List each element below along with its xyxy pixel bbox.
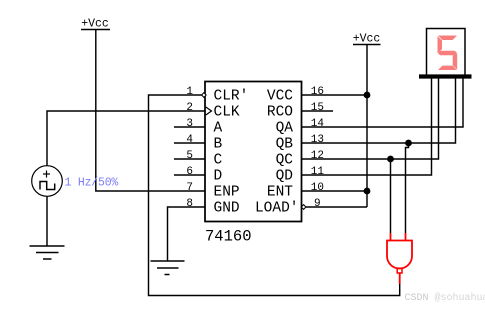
- node VCC junction: [364, 92, 371, 99]
- svg-text:9: 9: [314, 198, 321, 210]
- svg-text:14: 14: [311, 118, 325, 130]
- wire pin12 QC to display: [302, 78, 439, 159]
- svg-text:CLK: CLK: [214, 105, 240, 121]
- svg-text:16: 16: [311, 86, 324, 98]
- ground (clock): [30, 246, 65, 259]
- node QC junction: [387, 156, 394, 163]
- svg-text:11: 11: [311, 166, 325, 178]
- svg-text:LOAD': LOAD': [255, 201, 299, 217]
- svg-text:B: B: [214, 137, 223, 153]
- clock source V1: [32, 166, 63, 197]
- svg-text:5: 5: [186, 150, 193, 162]
- pin labels right: [255, 89, 299, 217]
- ground (pin 8): [151, 261, 185, 275]
- svg-text:CSDN @sohuahua: CSDN @sohuahua: [405, 292, 485, 304]
- wire pin8 GND to ground: [168, 207, 205, 261]
- digit 5 segments: [438, 36, 458, 71]
- svg-text:C: C: [214, 153, 223, 169]
- NAND gate U2 (red, pointing down): [387, 233, 412, 284]
- svg-text:1: 1: [186, 86, 193, 98]
- wire clock to ground: [46, 196, 48, 246]
- IC U1 74160 body: [205, 82, 302, 222]
- active-low diamond pin1 CLR': [202, 93, 207, 98]
- svg-text:+Vcc: +Vcc: [81, 18, 109, 31]
- wire CLR' loop: pin1 left, down, along bottom to NAND output: [149, 95, 400, 296]
- svg-text:12: 12: [311, 150, 324, 162]
- svg-text:6: 6: [186, 166, 193, 178]
- svg-text:D: D: [214, 169, 223, 185]
- svg-text:7: 7: [186, 182, 193, 194]
- svg-text:RCO: RCO: [267, 105, 293, 121]
- pin numbers left: [186, 86, 193, 210]
- node QB junction: [405, 140, 412, 147]
- wire +Vcc right stem down to LOAD' level: [366, 45, 368, 207]
- power +Vcc right: [353, 33, 381, 46]
- node ENT junction: [364, 188, 371, 195]
- wire pin11 QD to display: [302, 78, 432, 175]
- svg-text:8: 8: [186, 198, 193, 210]
- svg-text:GND: GND: [214, 201, 240, 217]
- wire clock to CLK pin2: [47, 111, 205, 166]
- svg-text:74160: 74160: [205, 228, 252, 246]
- svg-text:QC: QC: [276, 153, 294, 169]
- wire +Vcc left stem to ENP: [96, 30, 205, 191]
- svg-text:+Vcc: +Vcc: [353, 33, 381, 46]
- pin numbers right: [311, 86, 325, 210]
- svg-text:VCC: VCC: [267, 89, 293, 105]
- 7-segment display DS1: [419, 29, 472, 77]
- svg-text:3: 3: [186, 118, 193, 130]
- wire QC branch to NAND input a: [390, 159, 392, 233]
- wire stub pin4 B: [174, 142, 205, 144]
- wire pin13 QB to display: [302, 78, 456, 143]
- wire stub pin15 RCO: [302, 110, 333, 112]
- svg-text:QD: QD: [276, 169, 293, 185]
- svg-text:1 Hz/50%: 1 Hz/50%: [65, 177, 119, 190]
- wire pin14 QA to display: [302, 78, 463, 127]
- svg-text:A: A: [214, 121, 223, 137]
- svg-text:ENT: ENT: [267, 185, 293, 201]
- svg-text:15: 15: [311, 102, 324, 114]
- wire stub pin3 A: [174, 126, 205, 128]
- wire stub pin6 D: [174, 174, 205, 176]
- svg-text:4: 4: [186, 134, 193, 146]
- wire pin10 ENT: [302, 190, 367, 192]
- wire pin9 LOAD': [306, 206, 367, 208]
- svg-text:QA: QA: [276, 121, 294, 137]
- wire QB branch to NAND input b: [406, 143, 409, 233]
- svg-text:2: 2: [186, 102, 193, 114]
- svg-text:10: 10: [311, 182, 324, 194]
- wire pin16 VCC: [302, 94, 367, 96]
- svg-text:13: 13: [311, 134, 324, 146]
- wire stub pin5 C: [174, 158, 205, 160]
- pin labels left: [214, 89, 249, 217]
- svg-text:QB: QB: [276, 137, 294, 153]
- svg-text:CLR': CLR': [214, 89, 249, 105]
- active-low diamond pin9 LOAD': [301, 205, 306, 210]
- svg-text:ENP: ENP: [214, 185, 240, 201]
- clock edge triangle pin2 CLK: [206, 107, 212, 115]
- power +Vcc left: [81, 18, 110, 31]
